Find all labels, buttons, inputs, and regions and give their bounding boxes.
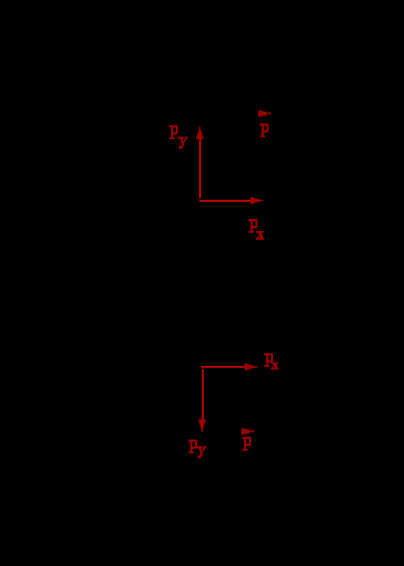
label p_x (bottom)	[264, 353, 273, 367]
label p_y (top)	[169, 125, 178, 139]
wire: p_y axis shaft (vertical, top)	[199, 137, 201, 198]
arrowhead right (top p_x axis)	[250, 197, 263, 204]
label p_y (bottom)	[188, 440, 197, 454]
wire: p_x axis shaft (horizontal, top)	[199, 200, 251, 202]
wire: p_y axis shaft (vertical, bottom)	[202, 369, 204, 419]
arrowhead down (bottom p_y axis)	[199, 419, 206, 432]
label vector p (bottom)	[241, 428, 254, 435]
arrowhead up (top p_y axis)	[196, 126, 203, 139]
wire: p_x axis shaft (horizontal, bottom)	[201, 366, 246, 368]
arrowhead right (bottom p_x axis)	[245, 363, 258, 370]
label p_x (top)	[249, 219, 258, 233]
label vector p (top)	[258, 110, 271, 117]
